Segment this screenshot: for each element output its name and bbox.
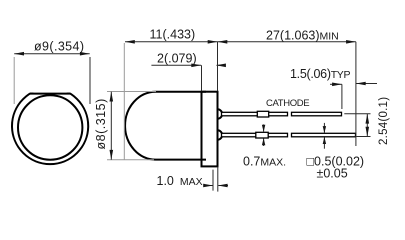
bottom lead root bulge <box>218 130 223 139</box>
2.54 extension from top lead <box>344 113 370 115</box>
arrow right of ø9 dim <box>80 52 90 56</box>
wire: ø9 dimension line <box>14 53 90 55</box>
top lead segment 1 <box>222 112 288 116</box>
vertical from arrow tip down to top lead end <box>341 84 343 109</box>
svg-text:ø9(.354): ø9(.354) <box>34 40 84 54</box>
extension line flange left <box>201 65 203 91</box>
top lead root bulge <box>218 109 223 118</box>
main top dimension line (11 / 27) <box>125 41 356 43</box>
ø8 top extension line (gray) <box>107 91 156 93</box>
flange (side view) <box>202 92 218 167</box>
extension line flange right (shared 11/27/2) <box>217 42 219 91</box>
right arrow of 2(.079) <box>217 64 224 66</box>
gray construction line through dome (11 dim extension) <box>123 43 125 160</box>
svg-text:±0.05: ±0.05 <box>317 167 348 181</box>
bottom lead segment 1 <box>222 133 288 137</box>
extension line at bottom lead end (27 dim) <box>355 42 357 146</box>
LED dome body (side view) <box>125 92 206 160</box>
svg-text:2.54(0.1): 2.54(0.1) <box>378 97 390 145</box>
svg-text:CATHODE: CATHODE <box>266 98 309 109</box>
arrows meeting at flange plane <box>208 40 218 44</box>
1.0 dim right arrow <box>218 185 228 187</box>
ø8 dimension line with arrows <box>110 92 112 160</box>
2.54 extension from bottom lead <box>356 136 370 138</box>
extension line right <box>89 57 91 104</box>
svg-text:ø8(.315): ø8(.315) <box>94 98 108 149</box>
leader line under 2(.079) with right arrow <box>151 64 201 66</box>
2.54 dimension line with outward arrows <box>366 114 368 137</box>
flange flat (top chord of outer circle) <box>30 93 71 95</box>
inner circle (ø8 body, top view) <box>18 95 82 159</box>
ø8 bottom extension line (gray) <box>107 159 154 161</box>
top lead segment 2 (after break) <box>292 112 342 116</box>
arrow left of ø9 dim <box>14 52 24 56</box>
1.5 dim right arrow + tail <box>356 83 377 85</box>
bottom lead collar (0.7 section) <box>256 132 268 138</box>
1.5 dim left arrow + tail <box>330 83 342 85</box>
0.5 arrows at bottom lead seg2 <box>323 123 325 133</box>
svg-text:2(.079): 2(.079) <box>157 52 197 66</box>
svg-text:11(.433): 11(.433) <box>150 28 196 42</box>
top lead collar (0.7 section) <box>257 111 268 117</box>
1.0 extension lines <box>212 170 214 191</box>
arrow left end (11) <box>125 40 135 44</box>
svg-text:27(1.063)MIN: 27(1.063)MIN <box>266 29 339 43</box>
arrow right end (27) <box>346 40 356 44</box>
svg-text:0.7MAX.: 0.7MAX. <box>243 155 286 169</box>
extension line left (gray) <box>13 57 15 104</box>
svg-text:1.0 MAX.: 1.0 MAX. <box>157 174 206 188</box>
0.7MAX arrows at bottom lead collar <box>263 124 265 131</box>
outer circle (ø9 flange, top view) <box>12 88 88 164</box>
svg-text:1.5(.06)TYP: 1.5(.06)TYP <box>290 67 351 81</box>
bottom lead segment 2 (after break) <box>292 133 356 137</box>
1.0 dim left arrow <box>204 185 213 187</box>
